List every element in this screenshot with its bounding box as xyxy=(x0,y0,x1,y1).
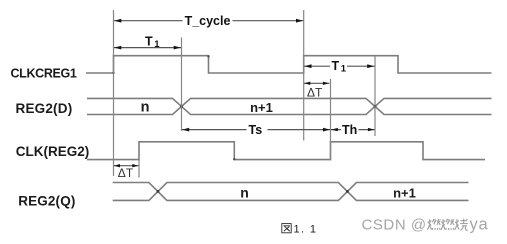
dimension Th right arrow xyxy=(368,128,375,131)
svg-text:T: T xyxy=(332,59,340,73)
dimension T1 first right arrow xyxy=(174,46,181,50)
svg-text:CSDN @: CSDN @ xyxy=(362,217,427,234)
guide tick at x=139 below CLK rising edge xyxy=(138,160,140,178)
svg-text:1: 1 xyxy=(341,63,347,74)
svg-text:ΔT: ΔT xyxy=(307,86,323,100)
svg-text:n: n xyxy=(240,185,249,201)
svg-text:REG2(D): REG2(D) xyxy=(16,101,73,116)
dimension Th left arrow xyxy=(331,128,338,131)
dimension T1 first line xyxy=(114,47,181,49)
dimension T1 second line xyxy=(304,65,375,67)
svg-text:CLK(REG2): CLK(REG2) xyxy=(16,144,90,159)
dimension dT bottom right arrow xyxy=(132,164,138,167)
junction dot CLK fall corner xyxy=(233,158,235,160)
dimension dT bottom line xyxy=(114,165,139,167)
svg-text:Th: Th xyxy=(342,123,357,137)
svg-text:n+1: n+1 xyxy=(250,100,273,115)
watermark CJK glyph ran 1 xyxy=(428,219,441,230)
figure caption glyph tu (CJK) xyxy=(282,224,291,233)
junction dot REG2(Q) X1 xyxy=(157,190,160,193)
svg-text:CLKCREG1: CLKCREG1 xyxy=(11,67,77,81)
waveform REG2(Q) rail B xyxy=(113,183,469,201)
svg-text:1. 1: 1. 1 xyxy=(294,224,318,236)
dimension dT top line xyxy=(304,82,330,84)
dimension T1 second right arrow xyxy=(367,64,374,68)
dimension T_cycle right arrow xyxy=(296,19,303,23)
svg-text:n: n xyxy=(141,100,150,116)
svg-text:REG2(Q): REG2(Q) xyxy=(18,193,75,208)
dimension Th line xyxy=(331,129,375,131)
dimension Ts left arrow xyxy=(182,128,189,132)
dimension T_cycle left arrow xyxy=(114,19,121,23)
waveform REG2(Q) rail A xyxy=(113,183,469,201)
junction dot REG2(D) X1 xyxy=(180,105,183,108)
svg-text:n+1: n+1 xyxy=(393,186,416,201)
dimension Ts line xyxy=(182,129,330,131)
watermark CJK glyph shao xyxy=(455,219,468,231)
svg-text:ya: ya xyxy=(470,216,489,234)
dimension dT bottom left arrow xyxy=(114,164,120,167)
dimension T1 first left arrow xyxy=(114,46,121,50)
waveform REG2(D) rail B xyxy=(87,98,492,114)
guide line V2 at x=181.5 xyxy=(181,38,183,132)
svg-text:Ts: Ts xyxy=(249,123,263,137)
svg-text:ΔT: ΔT xyxy=(118,166,134,180)
waveform CLK(REG2) xyxy=(87,142,485,160)
junction dot REG2(Q) X2 xyxy=(346,190,349,193)
guide line V5 at x=375 xyxy=(374,56,376,136)
dimension T1 second left arrow xyxy=(305,64,312,68)
waveform REG2(D) rail A xyxy=(87,98,492,114)
dimension dT top right arrow xyxy=(323,82,329,85)
junction dot CLKCREG1 rise base xyxy=(112,72,114,74)
dimension Ts right arrow xyxy=(323,128,330,132)
dimension dT top left arrow xyxy=(304,82,310,85)
junction dot CLKCREG1 fall corner xyxy=(207,55,209,57)
svg-text:1: 1 xyxy=(154,39,160,50)
svg-text:T_cycle: T_cycle xyxy=(185,14,231,28)
svg-text:T: T xyxy=(145,35,153,49)
junction dot REG2(D) X2 xyxy=(374,105,377,108)
waveform CLKCREG1 xyxy=(86,56,492,73)
guide line V1 at clk rising edge x=113.5 xyxy=(113,10,115,176)
guide line V4 at x=330.5 xyxy=(330,79,332,160)
watermark CJK glyph ran 2 xyxy=(441,219,454,230)
guide line V3 at x=303.7 xyxy=(303,10,305,141)
dimension T_cycle line xyxy=(114,20,303,22)
